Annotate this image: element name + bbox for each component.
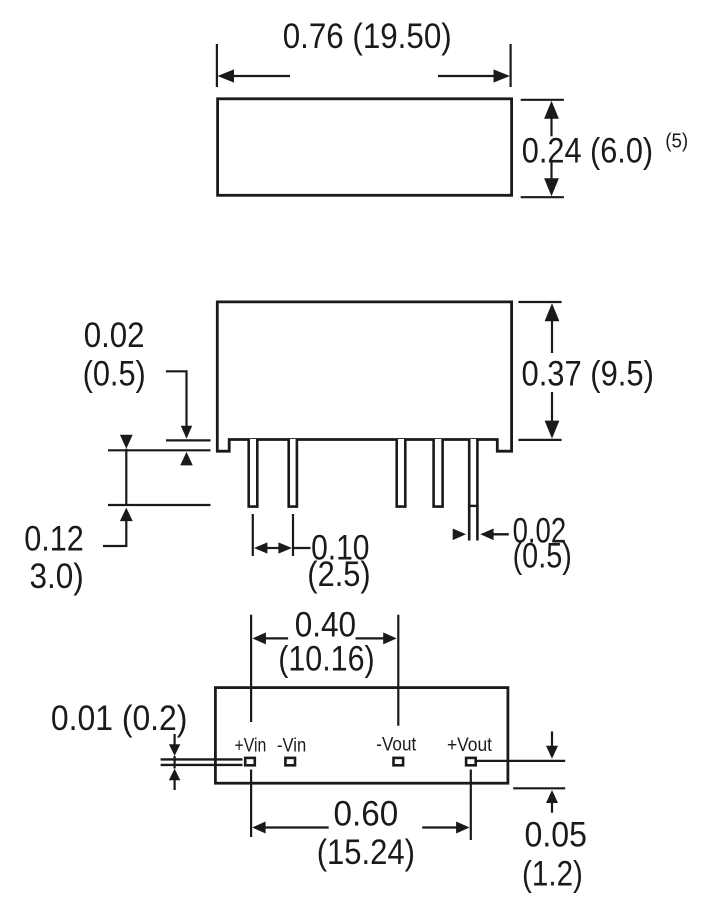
0.37 dim arrow down <box>545 392 560 439</box>
0.60 arrow right <box>422 822 469 834</box>
pin 6 side view with width extension <box>468 439 479 541</box>
0.40 extension line pin1 <box>250 615 252 722</box>
0.60 arrow left <box>252 822 329 834</box>
0.60 extension line pin4 <box>470 770 472 841</box>
dimension arrow right 0.76 <box>438 69 510 82</box>
0.01 arrow down <box>169 734 180 769</box>
0.10 pitch extension line right <box>292 514 294 556</box>
svg-text:(10.16): (10.16) <box>278 640 375 679</box>
pin 2 side view <box>289 439 297 507</box>
svg-text:(5): (5) <box>665 130 688 152</box>
svg-text:0.76 (19.50): 0.76 (19.50) <box>283 17 452 56</box>
svg-text:+Vin: +Vin <box>235 734 267 756</box>
svg-text:(2.5): (2.5) <box>307 555 370 594</box>
0.12 dim arrow up <box>120 508 133 521</box>
extension line top of 0.24 dim <box>521 99 564 101</box>
dimension arrow left 0.76 <box>218 69 291 82</box>
0.60 extension line pin1 <box>250 770 252 838</box>
0.40 arrow left <box>252 632 288 644</box>
pin 4 side view <box>397 439 406 507</box>
svg-text:0.37 (9.5): 0.37 (9.5) <box>522 355 654 394</box>
standoff extension line B (tab bottom) <box>108 449 211 451</box>
arrow down to standoff line <box>181 426 192 439</box>
svg-text:-Vout: -Vout <box>376 734 416 756</box>
arrow up to tab bottom line <box>180 452 193 466</box>
0.40 arrow right <box>356 632 397 644</box>
leader for 0.02 (0.5) standoff <box>166 371 187 427</box>
extension line left of 0.76 dim <box>216 44 218 87</box>
dimension arrow down 0.24 <box>544 162 559 196</box>
0.05 arrow up <box>546 790 558 813</box>
svg-text:3.0): 3.0) <box>30 557 84 596</box>
pin length extension line C <box>108 504 211 506</box>
0.05 arrow down <box>546 732 558 759</box>
dimension arrow up 0.24 <box>544 101 559 137</box>
pin 1 side view <box>249 439 258 507</box>
svg-text:(15.24): (15.24) <box>317 833 415 872</box>
0.05 extension line from body edge <box>513 787 565 789</box>
extension line right of 0.76 dim <box>510 44 512 87</box>
0.12 dim arrow down <box>120 435 133 449</box>
svg-text:0.24 (6.0): 0.24 (6.0) <box>522 132 653 171</box>
extension line bottom of 0.37 dim <box>518 439 561 441</box>
extension line top of 0.37 dim <box>518 301 561 303</box>
pad +Vout <box>466 758 476 765</box>
svg-text:0.02: 0.02 <box>84 316 145 355</box>
svg-text:0.12: 0.12 <box>24 519 84 558</box>
0.10 pitch extension line left <box>252 514 254 556</box>
pin 5 side view <box>434 439 443 507</box>
extension line bottom of 0.24 dim <box>521 196 564 198</box>
svg-text:-Vin: -Vin <box>277 734 306 756</box>
pad -Vin <box>285 758 295 765</box>
0.05 extension line from pad <box>477 760 566 762</box>
0.02 pin width arrow left <box>453 529 466 541</box>
svg-text:0.40: 0.40 <box>295 605 356 644</box>
svg-text:0.05: 0.05 <box>525 816 587 855</box>
bottom view body <box>215 688 508 784</box>
0.12 leader <box>103 521 126 546</box>
svg-text:0.01 (0.2): 0.01 (0.2) <box>51 699 188 738</box>
side view body with standoff tabs <box>217 302 511 451</box>
top view body <box>218 99 512 196</box>
0.01 arrow up <box>169 769 180 790</box>
pad -Vout <box>394 758 404 765</box>
svg-text:(0.5): (0.5) <box>513 537 572 576</box>
pin edge line lower <box>161 764 243 766</box>
svg-text:0.60: 0.60 <box>334 795 399 834</box>
0.10 arrows outward <box>254 542 311 553</box>
standoff extension line A (body bottom) <box>166 439 211 441</box>
pin edge line upper <box>161 758 243 760</box>
svg-text:(1.2): (1.2) <box>522 855 583 894</box>
0.02 pin width arrow right <box>480 529 509 541</box>
svg-text:(0.5): (0.5) <box>83 355 146 394</box>
svg-text:+Vout: +Vout <box>447 734 493 756</box>
0.40 extension line pin3 <box>397 615 399 726</box>
0.12 dim line <box>125 449 127 505</box>
0.37 dim arrow up <box>545 303 560 353</box>
pad +Vin <box>245 758 255 765</box>
